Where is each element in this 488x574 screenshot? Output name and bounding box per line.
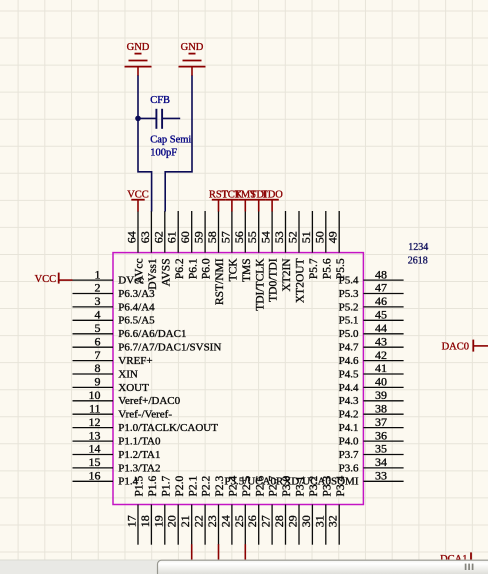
- svg-text:P4.0: P4.0: [339, 436, 359, 448]
- svg-text:41: 41: [375, 361, 387, 375]
- svg-text:36: 36: [375, 428, 387, 442]
- svg-text:15: 15: [89, 455, 101, 469]
- svg-text:16: 16: [89, 469, 101, 483]
- svg-text:35: 35: [375, 442, 387, 456]
- svg-text:TDO: TDO: [261, 189, 283, 200]
- wire cap left lead: [138, 117, 156, 119]
- svg-text:P2.2: P2.2: [201, 475, 213, 496]
- power port TCK (top): [221, 189, 242, 211]
- power port TMS (top): [235, 189, 257, 211]
- pin 39 P4.3 (right): [339, 388, 404, 407]
- pin 43 P4.7 (right): [339, 334, 404, 353]
- svg-text:2618: 2618: [408, 256, 428, 267]
- svg-text:63: 63: [138, 231, 152, 243]
- power port VCC (left, pin 1): [35, 273, 73, 285]
- svg-text:10: 10: [89, 388, 101, 402]
- pin 41 P4.5 (right): [339, 361, 404, 380]
- svg-text:56: 56: [232, 231, 246, 243]
- pin 20 P2.0 (bottom): [165, 475, 186, 544]
- IC U1 MSP430 body: [113, 253, 363, 505]
- svg-text:P5.5: P5.5: [335, 258, 347, 279]
- svg-text:P3.6: P3.6: [339, 462, 359, 474]
- svg-text:TDI/TCLK: TDI/TCLK: [254, 258, 266, 311]
- svg-text:17: 17: [125, 515, 139, 527]
- pin 10 Veref+/DAC0 (left): [73, 388, 181, 407]
- scrollbar track: [0, 560, 488, 574]
- svg-text:43: 43: [375, 334, 387, 348]
- svg-text:30: 30: [299, 515, 313, 527]
- svg-text:AVcc: AVcc: [134, 258, 146, 283]
- pin 53 XT2IN (top): [272, 211, 293, 292]
- pin 40 P4.4 (right): [339, 375, 404, 394]
- svg-text:2: 2: [95, 281, 101, 295]
- pin 44 P5.0 (right): [339, 321, 404, 340]
- svg-text:P2.3: P2.3: [214, 475, 226, 496]
- svg-text:28: 28: [272, 515, 286, 527]
- svg-text:VREF+: VREF+: [118, 355, 152, 367]
- svg-text:DAC0: DAC0: [442, 342, 469, 353]
- svg-text:P5.3: P5.3: [339, 288, 359, 300]
- wire stub below pin 25: [244, 544, 246, 560]
- svg-text:P2.7: P2.7: [268, 475, 280, 496]
- svg-text:P1.3/TA2: P1.3/TA2: [118, 462, 160, 474]
- capacitor C? CFB plates: [156, 109, 162, 129]
- svg-text:52: 52: [286, 231, 300, 243]
- pin 60 P6.1 (top): [178, 211, 199, 279]
- pin 16 P1.4 (left): [73, 469, 139, 488]
- wire cap right lead: [163, 117, 180, 119]
- svg-text:P3.3: P3.3: [321, 475, 333, 496]
- svg-text:XT2OUT: XT2OUT: [295, 258, 307, 303]
- svg-text:Cap Semi: Cap Semi: [150, 135, 191, 146]
- wire GND1 vertical: [138, 76, 152, 212]
- pin 36 P4.0 (right): [339, 428, 404, 447]
- port DAC0 (right): [442, 340, 488, 353]
- pin 11 Vref-/Veref- (left): [73, 401, 173, 420]
- pin 25 P2.5 (bottom): [232, 475, 253, 544]
- svg-text:3: 3: [95, 294, 101, 308]
- pin 49 P5.5 (top): [326, 211, 347, 279]
- svg-text:P6.7/A7/DAC1/SVSIN: P6.7/A7/DAC1/SVSIN: [118, 342, 221, 354]
- svg-text:54: 54: [259, 231, 273, 243]
- pin 23 P2.3 (bottom): [205, 475, 226, 544]
- pin 4 P6.5/A5 (left): [73, 308, 156, 327]
- svg-text:P2.1: P2.1: [187, 475, 199, 496]
- svg-text:CFB: CFB: [150, 95, 170, 106]
- svg-text:40: 40: [375, 375, 387, 389]
- svg-text:57: 57: [218, 231, 232, 243]
- svg-text:6: 6: [95, 334, 101, 348]
- svg-text:P2.4: P2.4: [228, 475, 240, 496]
- svg-text:Veref+/DAC0: Veref+/DAC0: [118, 395, 180, 407]
- pin 9 XOUT (left): [73, 375, 150, 394]
- pin 35 P3.7 (right): [339, 442, 404, 461]
- pin 47 P5.3 (right): [339, 281, 404, 300]
- svg-text:44: 44: [375, 321, 387, 335]
- svg-text:P6.5/A5: P6.5/A5: [118, 315, 155, 327]
- svg-text:7: 7: [95, 348, 101, 362]
- junction node at cap tap: [135, 116, 141, 122]
- svg-text:P3.4: P3.4: [335, 475, 347, 496]
- svg-text:13: 13: [89, 428, 101, 442]
- svg-text:P1.0/TACLK/CAOUT: P1.0/TACLK/CAOUT: [118, 422, 218, 434]
- svg-text:P4.4: P4.4: [339, 382, 359, 394]
- svg-text:60: 60: [178, 231, 192, 243]
- svg-text:P1.7: P1.7: [160, 475, 172, 496]
- pin 33 P3.5/UCA0RXD/UCA0SOMI (right): [224, 469, 403, 488]
- svg-text:VCC: VCC: [127, 189, 149, 200]
- svg-text:50: 50: [312, 231, 326, 243]
- svg-text:P5.7: P5.7: [308, 258, 320, 279]
- svg-text:33: 33: [375, 469, 387, 483]
- pin 24 P2.4 (bottom): [218, 475, 239, 544]
- svg-text:53: 53: [272, 231, 286, 243]
- svg-text:P4.5: P4.5: [339, 368, 359, 380]
- svg-text:5: 5: [95, 321, 101, 335]
- pin 14 P1.2/TA1 (left): [73, 442, 161, 461]
- svg-text:64: 64: [125, 231, 139, 243]
- svg-text:P4.1: P4.1: [339, 422, 359, 434]
- pin 3 P6.4/A4 (left): [73, 294, 156, 313]
- svg-text:P1.2/TA1: P1.2/TA1: [118, 449, 160, 461]
- pin 42 P4.6 (right): [339, 348, 404, 367]
- svg-text:47: 47: [375, 281, 387, 295]
- svg-text:P4.3: P4.3: [339, 395, 359, 407]
- pin 2 P6.3/A3 (left): [73, 281, 156, 300]
- pin 12 P1.0/TACLK/CAOUT (left): [73, 415, 219, 434]
- pin 46 P5.2 (right): [339, 294, 404, 313]
- svg-text:100pF: 100pF: [150, 147, 177, 158]
- pin 19 P1.7 (bottom): [151, 475, 172, 544]
- svg-text:21: 21: [178, 515, 192, 527]
- svg-text:18: 18: [138, 515, 152, 527]
- svg-text:P3.1: P3.1: [295, 475, 307, 496]
- pin 1 DVcc (left): [73, 267, 145, 286]
- svg-text:P6.1: P6.1: [187, 258, 199, 279]
- wire stub below pin 21: [191, 544, 193, 560]
- svg-text:23: 23: [205, 515, 219, 527]
- svg-text:29: 29: [286, 515, 300, 527]
- pin 52 XT2OUT (top): [286, 211, 307, 303]
- GND power port 2: [179, 42, 206, 76]
- svg-text:P6.4/A4: P6.4/A4: [118, 301, 155, 313]
- pin 18 P1.6 (bottom): [138, 475, 159, 544]
- power port RST (top): [209, 189, 229, 211]
- pin 50 P5.6 (top): [312, 211, 333, 279]
- pin 28 P3.0 (bottom): [272, 475, 293, 544]
- svg-text:34: 34: [375, 455, 387, 469]
- svg-text:P5.0: P5.0: [339, 328, 359, 340]
- svg-text:25: 25: [232, 515, 246, 527]
- pin 61 P6.2 (top): [165, 211, 186, 279]
- port DCA1 (bottom right, clipped): [440, 552, 471, 565]
- svg-text:11: 11: [89, 401, 101, 415]
- svg-text:P4.6: P4.6: [339, 355, 359, 367]
- pin 5 P6.6/A6/DAC1 (left): [73, 321, 187, 340]
- svg-text:45: 45: [375, 308, 387, 322]
- wire GND2 vertical: [165, 76, 192, 212]
- svg-text:XIN: XIN: [118, 368, 138, 380]
- pin 13 P1.1/TA0 (left): [73, 428, 162, 447]
- svg-text:27: 27: [259, 515, 273, 527]
- svg-text:48: 48: [375, 267, 387, 281]
- pin 37 P4.1 (right): [339, 415, 404, 434]
- pin 15 P1.3/TA2 (left): [73, 455, 161, 474]
- svg-text:38: 38: [375, 401, 387, 415]
- pin 17 P1.5 (bottom): [125, 475, 146, 544]
- svg-text:51: 51: [299, 231, 313, 243]
- svg-text:4: 4: [95, 308, 101, 322]
- pin 34 P3.6 (right): [339, 455, 404, 474]
- pin 26 P2.6 (bottom): [245, 475, 266, 544]
- svg-text:22: 22: [192, 515, 206, 527]
- svg-text:P2.0: P2.0: [174, 475, 186, 496]
- pin 51 P5.7 (top): [299, 211, 320, 279]
- pin 8 XIN (left): [73, 361, 138, 380]
- pin 27 P2.7 (bottom): [259, 475, 280, 544]
- pin 58 RST/NMI (top): [205, 211, 226, 305]
- pin 38 P4.2 (right): [339, 401, 404, 420]
- svg-text:20: 20: [165, 515, 179, 527]
- svg-text:P3.2: P3.2: [308, 475, 320, 496]
- pin 32 P3.4 (bottom): [326, 475, 347, 544]
- svg-text:46: 46: [375, 294, 387, 308]
- pin 6 P6.7/A7/DAC1/SVSIN (left): [73, 334, 222, 353]
- svg-text:P5.1: P5.1: [339, 315, 359, 327]
- svg-text:24: 24: [218, 515, 232, 527]
- svg-text:37: 37: [375, 415, 387, 429]
- pin 55 TDI/TCLK (top): [245, 211, 266, 311]
- svg-text:XOUT: XOUT: [118, 382, 149, 394]
- svg-text:1: 1: [95, 267, 101, 281]
- svg-text:55: 55: [245, 231, 259, 243]
- pin 54 TD0/TDI (top): [259, 211, 280, 302]
- pin 56 TMS (top): [232, 211, 253, 282]
- power port VCC (top): [127, 189, 149, 211]
- pin 45 P5.1 (right): [339, 308, 404, 327]
- svg-text:P3.0: P3.0: [281, 475, 293, 496]
- power port TDI (top): [250, 189, 268, 211]
- svg-text:P6.6/A6/DAC1: P6.6/A6/DAC1: [118, 328, 186, 340]
- svg-text:14: 14: [89, 442, 101, 456]
- svg-text:P4.2: P4.2: [339, 409, 359, 421]
- svg-text:TCK: TCK: [228, 258, 240, 282]
- svg-text:XT2IN: XT2IN: [281, 258, 293, 292]
- pin 22 P2.2 (bottom): [192, 475, 213, 544]
- pin 62 AVSS (top): [151, 211, 172, 286]
- svg-text:59: 59: [192, 231, 206, 243]
- svg-text:P6.0: P6.0: [201, 258, 213, 279]
- pin 64 AVcc (top): [125, 211, 146, 284]
- svg-text:P1.5: P1.5: [134, 475, 146, 496]
- svg-text:P1.1/TA0: P1.1/TA0: [118, 436, 161, 448]
- svg-text:61: 61: [165, 231, 179, 243]
- svg-text:Vref-/Veref-: Vref-/Veref-: [118, 409, 172, 421]
- svg-text:58: 58: [205, 231, 219, 243]
- svg-text:DVss1: DVss1: [147, 258, 159, 290]
- GND power port 1: [125, 42, 152, 76]
- svg-text:P5.6: P5.6: [321, 258, 333, 279]
- svg-text:TD0/TDI: TD0/TDI: [268, 258, 280, 302]
- svg-text:12: 12: [89, 415, 101, 429]
- pin 63 DVss1 (top): [138, 211, 159, 290]
- svg-text:39: 39: [375, 388, 387, 402]
- svg-text:P4.7: P4.7: [339, 342, 359, 354]
- svg-text:GND: GND: [181, 42, 204, 53]
- svg-text:P2.5: P2.5: [241, 475, 253, 496]
- svg-text:49: 49: [326, 231, 340, 243]
- pin 31 P3.3 (bottom): [312, 475, 333, 544]
- svg-text:P1.6: P1.6: [147, 475, 159, 496]
- svg-text:19: 19: [151, 515, 165, 527]
- pin 21 P2.1 (bottom): [178, 475, 199, 544]
- pin 29 P3.1 (bottom): [286, 475, 307, 544]
- svg-text:62: 62: [151, 231, 165, 243]
- svg-text:P3.7: P3.7: [339, 449, 359, 461]
- svg-text:9: 9: [95, 375, 101, 389]
- pin 59 P6.0 (top): [192, 211, 213, 279]
- pin 7 VREF+ (left): [73, 348, 153, 367]
- svg-text:AVSS: AVSS: [160, 258, 172, 286]
- power port TDO (top): [261, 189, 283, 211]
- pin 57 TCK (top): [218, 211, 239, 281]
- svg-text:32: 32: [326, 515, 340, 527]
- pin 30 P3.2 (bottom): [299, 475, 320, 544]
- svg-text:31: 31: [312, 515, 326, 527]
- svg-text:P5.2: P5.2: [339, 301, 359, 313]
- svg-text:TMS: TMS: [241, 258, 253, 282]
- svg-text:VCC: VCC: [35, 274, 57, 285]
- svg-text:P2.6: P2.6: [254, 475, 266, 496]
- pin 48 P5.4 (right): [339, 267, 404, 286]
- svg-text:RST/NMI: RST/NMI: [214, 258, 226, 305]
- svg-text:42: 42: [375, 348, 387, 362]
- wire stub below pin 23: [218, 544, 220, 560]
- svg-text:26: 26: [245, 515, 259, 527]
- svg-text:GND: GND: [127, 42, 150, 53]
- svg-text:P6.2: P6.2: [174, 258, 186, 279]
- svg-text:1234: 1234: [408, 242, 428, 253]
- svg-text:8: 8: [95, 361, 101, 375]
